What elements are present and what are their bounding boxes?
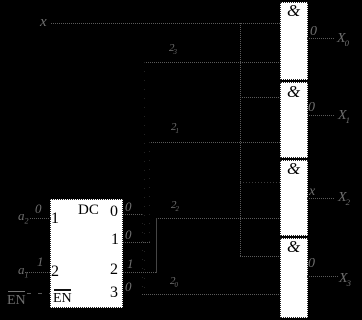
decoder output pin 0 <box>110 204 118 220</box>
decoder label DC <box>78 203 99 218</box>
wire riser decoder pin0 to select line 2_0 <box>142 214 143 294</box>
label 2_2 (select line) <box>171 200 179 211</box>
label value 0 at gate U1 output <box>310 25 317 39</box>
wire select line 2_1 to gate U2 <box>149 142 280 143</box>
label 2_1 (select line) <box>171 122 179 133</box>
label output X1 <box>338 109 350 123</box>
wire riser decoder pin2 to select line 2_2 <box>156 218 157 273</box>
label value 0 on decoder output 3 <box>125 280 132 293</box>
gate U2 (AND) box <box>280 82 308 158</box>
label EN input (active-low) <box>7 294 26 308</box>
wire decoder output 1 stub <box>123 242 150 243</box>
label x (data input) <box>40 15 47 30</box>
wire data branch to gate U2 <box>240 97 280 98</box>
gate U3 (AND) box <box>280 160 308 236</box>
label EN input overline <box>8 291 25 292</box>
wire select line 2_2 to gate U3 <box>156 218 280 219</box>
label value 1 on a1 <box>37 255 44 268</box>
gate U2 label & <box>287 83 300 100</box>
gate U1 (AND) box <box>280 2 308 80</box>
decoder pin EN (inside, active-low) <box>54 289 71 291</box>
wire select line 2_0 to gate U4 <box>142 294 280 295</box>
wire select line 2_3 to gate U1 <box>144 62 280 63</box>
decoder input pin 2 <box>51 264 59 280</box>
wire address input a2 <box>30 218 51 219</box>
wire gate U1 output <box>307 38 335 39</box>
wire riser decoder pin3 to select line 2_3 <box>144 62 145 295</box>
label output X3 <box>339 272 351 286</box>
label value 1 on decoder output 2 <box>127 257 134 270</box>
decoder U5 (DC) box <box>50 199 123 308</box>
gate U1 label & <box>287 2 300 19</box>
gate U4 (AND) box <box>280 238 308 318</box>
wire data input x <box>51 23 281 24</box>
decoder output pin 1 <box>111 232 119 248</box>
label value x at gate U3 output <box>309 185 315 199</box>
gate U3 label & <box>287 160 300 177</box>
wire decoder output 0 stub <box>123 214 143 215</box>
gate U4 label & <box>287 238 300 255</box>
wire gate U2 output <box>307 115 334 116</box>
decoder output pin 2 <box>110 262 118 278</box>
wire data branch to gate U4 <box>240 256 280 257</box>
label address input a1 <box>18 263 29 276</box>
label value 0 at gate U2 output <box>308 101 315 115</box>
label output X0 <box>337 32 349 46</box>
label value 0 on decoder output 1 <box>125 228 132 241</box>
decoder output pin 3 <box>110 285 118 301</box>
wire data branch to gate U3 <box>240 182 280 183</box>
label address input a2 <box>18 209 29 222</box>
label 2_3 (select line) <box>169 43 177 54</box>
label 2_0 (select line) <box>170 276 178 287</box>
label value 0 on a2 <box>35 202 42 215</box>
wire EN input (dashed) <box>27 293 51 294</box>
wire gate U4 output <box>307 276 338 277</box>
label output X2 <box>338 191 350 205</box>
wire riser decoder pin1 to select line 2_1 <box>149 142 150 242</box>
wire address input a1 <box>25 272 51 273</box>
wire data bus vertical <box>240 23 241 257</box>
decoder input pin 1 <box>51 211 59 227</box>
wire gate U3 output <box>307 198 335 199</box>
label value 0 at gate U4 output <box>308 257 315 271</box>
wire decoder output 2 stub <box>123 272 157 273</box>
label value 0 on decoder output 0 <box>125 200 132 213</box>
